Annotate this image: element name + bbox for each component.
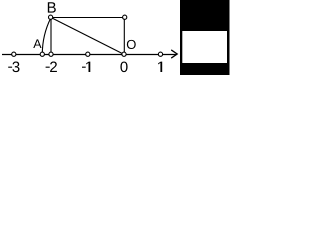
black square panel — [180, 0, 230, 75]
label A — [33, 39, 41, 48]
point circle 1 — [158, 52, 162, 56]
label -3 — [8, 62, 19, 73]
point circle C (rect top-right) — [123, 15, 127, 19]
label -2 — [46, 62, 57, 72]
point circle O (0) — [122, 52, 126, 56]
white inner square — [182, 31, 227, 63]
label O — [127, 40, 136, 49]
background — [0, 0, 230, 75]
point circle -3 — [12, 52, 16, 56]
diagonal B to O — [51, 18, 124, 55]
axis arrowhead — [172, 50, 178, 58]
rectangle right side C to O — [123, 18, 125, 55]
arc B to A centered at O — [42, 18, 51, 54]
point circle -2 — [49, 52, 53, 56]
label 0 — [120, 62, 127, 73]
label B — [48, 2, 56, 12]
rectangle left side below B — [50, 18, 52, 55]
point circle B — [49, 15, 53, 19]
label 1 — [158, 62, 162, 72]
point circle A (-sqrt5) — [40, 52, 44, 56]
label -1 — [82, 62, 90, 72]
number-line axis — [2, 54, 177, 56]
rectangle top side B to C — [51, 17, 124, 19]
point circle -1 — [86, 52, 90, 56]
